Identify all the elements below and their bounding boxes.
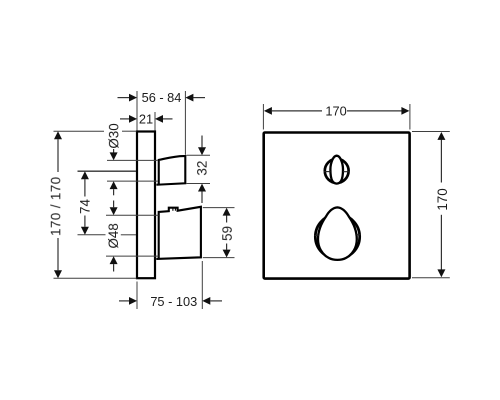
svg-text:75 - 103: 75 - 103 xyxy=(150,294,197,309)
front-view large knob grip xyxy=(318,207,357,260)
svg-text:74: 74 xyxy=(78,199,93,214)
svg-text:170: 170 xyxy=(435,188,450,210)
dimension 75-103 (bottom) xyxy=(119,261,222,309)
small knob side ticks xyxy=(324,171,350,173)
dimension 74 xyxy=(78,171,137,235)
side-view upper handle xyxy=(156,156,185,185)
dimension 32 xyxy=(187,136,211,204)
front-view large knob outer ring xyxy=(315,214,359,258)
dimension 21 xyxy=(120,112,173,131)
svg-text:56 - 84: 56 - 84 xyxy=(142,90,182,105)
svg-text:Ø48: Ø48 xyxy=(106,223,121,248)
lower handle button divider ticks xyxy=(173,208,176,211)
dimension 170 (right, front view) xyxy=(412,132,450,278)
side-view wall plate xyxy=(137,132,155,279)
dimension D48 xyxy=(106,215,159,271)
dimension 59 xyxy=(203,208,235,258)
front-view small knob grip xyxy=(330,156,343,184)
svg-text:21: 21 xyxy=(139,111,153,126)
svg-text:170 / 170: 170 / 170 xyxy=(48,176,63,235)
svg-text:59: 59 xyxy=(220,226,235,241)
dimension 56-84 (top) xyxy=(118,91,206,155)
svg-text:32: 32 xyxy=(195,161,210,176)
front-view escutcheon plate xyxy=(264,133,410,279)
large knob side ticks xyxy=(314,234,360,237)
dimension 170 (top, front view) xyxy=(263,104,410,130)
dimension 170/170 (left) xyxy=(54,131,137,278)
front-view small knob outer ring xyxy=(325,159,349,183)
svg-text:170: 170 xyxy=(325,104,346,119)
dimension D30 xyxy=(107,149,158,207)
side-view lower handle xyxy=(156,207,201,259)
svg-text:Ø30: Ø30 xyxy=(106,123,121,148)
